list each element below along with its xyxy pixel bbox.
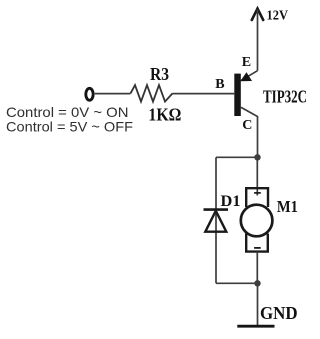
wire: collector down to junction bbox=[257, 116, 259, 157]
wire: junction to left branch bbox=[216, 156, 258, 158]
svg-text:Control = 5V ~ OFF: Control = 5V ~ OFF bbox=[6, 118, 133, 134]
transistor Q1 TIP32C base bar bbox=[234, 74, 241, 116]
svg-text:D1: D1 bbox=[221, 193, 241, 210]
transistor Q1 emitter arrowhead (PNP) bbox=[240, 72, 252, 81]
resistor R3 zigzag bbox=[131, 85, 173, 102]
transistor Q1 collector diagonal bbox=[241, 107, 258, 116]
wire: 12V to emitter corner bbox=[257, 10, 259, 71]
node: junction dot top bbox=[254, 154, 260, 160]
ground bbox=[237, 325, 274, 328]
12V supply arrow bbox=[252, 9, 263, 21]
wire: emitter diagonal bbox=[241, 71, 257, 81]
wire: diode branch bottom horizontal bbox=[216, 282, 258, 284]
svg-text:E: E bbox=[242, 55, 251, 70]
motor M1 top terminal box bbox=[246, 188, 268, 207]
motor M1 plus sign crossbar bbox=[254, 192, 261, 194]
wire: left branch vertical (diode branch) bbox=[215, 157, 217, 283]
diode D1 cathode bar bbox=[204, 208, 229, 211]
wire: junction down to motor bbox=[256, 157, 258, 195]
wire: motor to bottom junction bbox=[256, 252, 258, 284]
diode D1 triangle bbox=[205, 211, 226, 232]
svg-text:1KΩ: 1KΩ bbox=[148, 104, 181, 124]
svg-text:GND: GND bbox=[260, 303, 298, 323]
node: junction dot bottom bbox=[254, 280, 260, 286]
wire: resistor to base bbox=[173, 93, 235, 95]
motor M1 body circle bbox=[241, 205, 273, 237]
svg-text:B: B bbox=[215, 77, 224, 92]
svg-text:12V: 12V bbox=[267, 9, 289, 24]
svg-text:C: C bbox=[242, 118, 252, 133]
wire: terminal to resistor bbox=[95, 93, 131, 95]
motor M1 bottom terminal box bbox=[246, 234, 268, 252]
control input terminal bbox=[86, 88, 93, 100]
svg-text:TIP32C: TIP32C bbox=[263, 87, 307, 107]
motor M1 minus sign bbox=[254, 247, 261, 249]
svg-text:R3: R3 bbox=[150, 64, 169, 84]
svg-text:M1: M1 bbox=[277, 197, 298, 216]
wire: junction to ground bbox=[257, 283, 259, 325]
